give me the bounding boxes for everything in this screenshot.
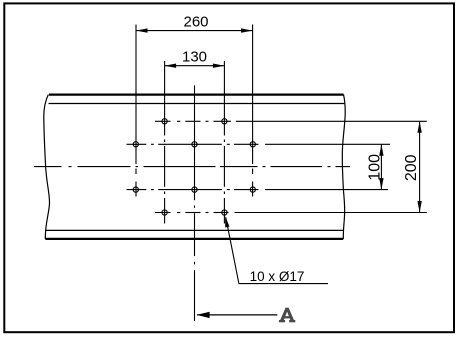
svg-text:200: 200	[403, 154, 420, 181]
svg-text:130: 130	[182, 49, 207, 66]
svg-text:100: 100	[366, 154, 383, 181]
svg-text:260: 260	[183, 13, 208, 30]
svg-text:10 x Ø17: 10 x Ø17	[250, 269, 305, 284]
